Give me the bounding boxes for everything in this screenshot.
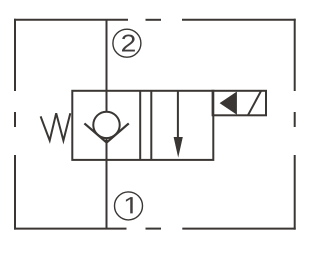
enclosure left dashed border — [14, 19, 16, 230]
port 2 label digit — [122, 35, 135, 52]
spring W — [41, 113, 71, 140]
port 1 label digit — [126, 197, 133, 213]
flow arrow shaft — [177, 91, 179, 141]
check valve poppet circle — [93, 112, 119, 138]
enclosure top dashed border — [14, 19, 296, 21]
wire port 2 line — [106, 20, 108, 112]
valve body outline — [72, 91, 213, 160]
solenoid triangle — [220, 92, 237, 115]
solenoid box — [213, 91, 266, 116]
wire port 1 line — [106, 138, 108, 229]
solenoid slash — [248, 91, 261, 116]
port 2 circle — [113, 29, 141, 57]
check valve seat V — [84, 123, 128, 142]
flow arrow head — [174, 137, 183, 158]
port 1 circle — [115, 192, 143, 220]
valve position divider left — [139, 91, 141, 160]
enclosure right dashed border — [294, 19, 296, 230]
enclosure bottom dashed border — [14, 228, 296, 230]
valve position divider right — [150, 91, 152, 160]
